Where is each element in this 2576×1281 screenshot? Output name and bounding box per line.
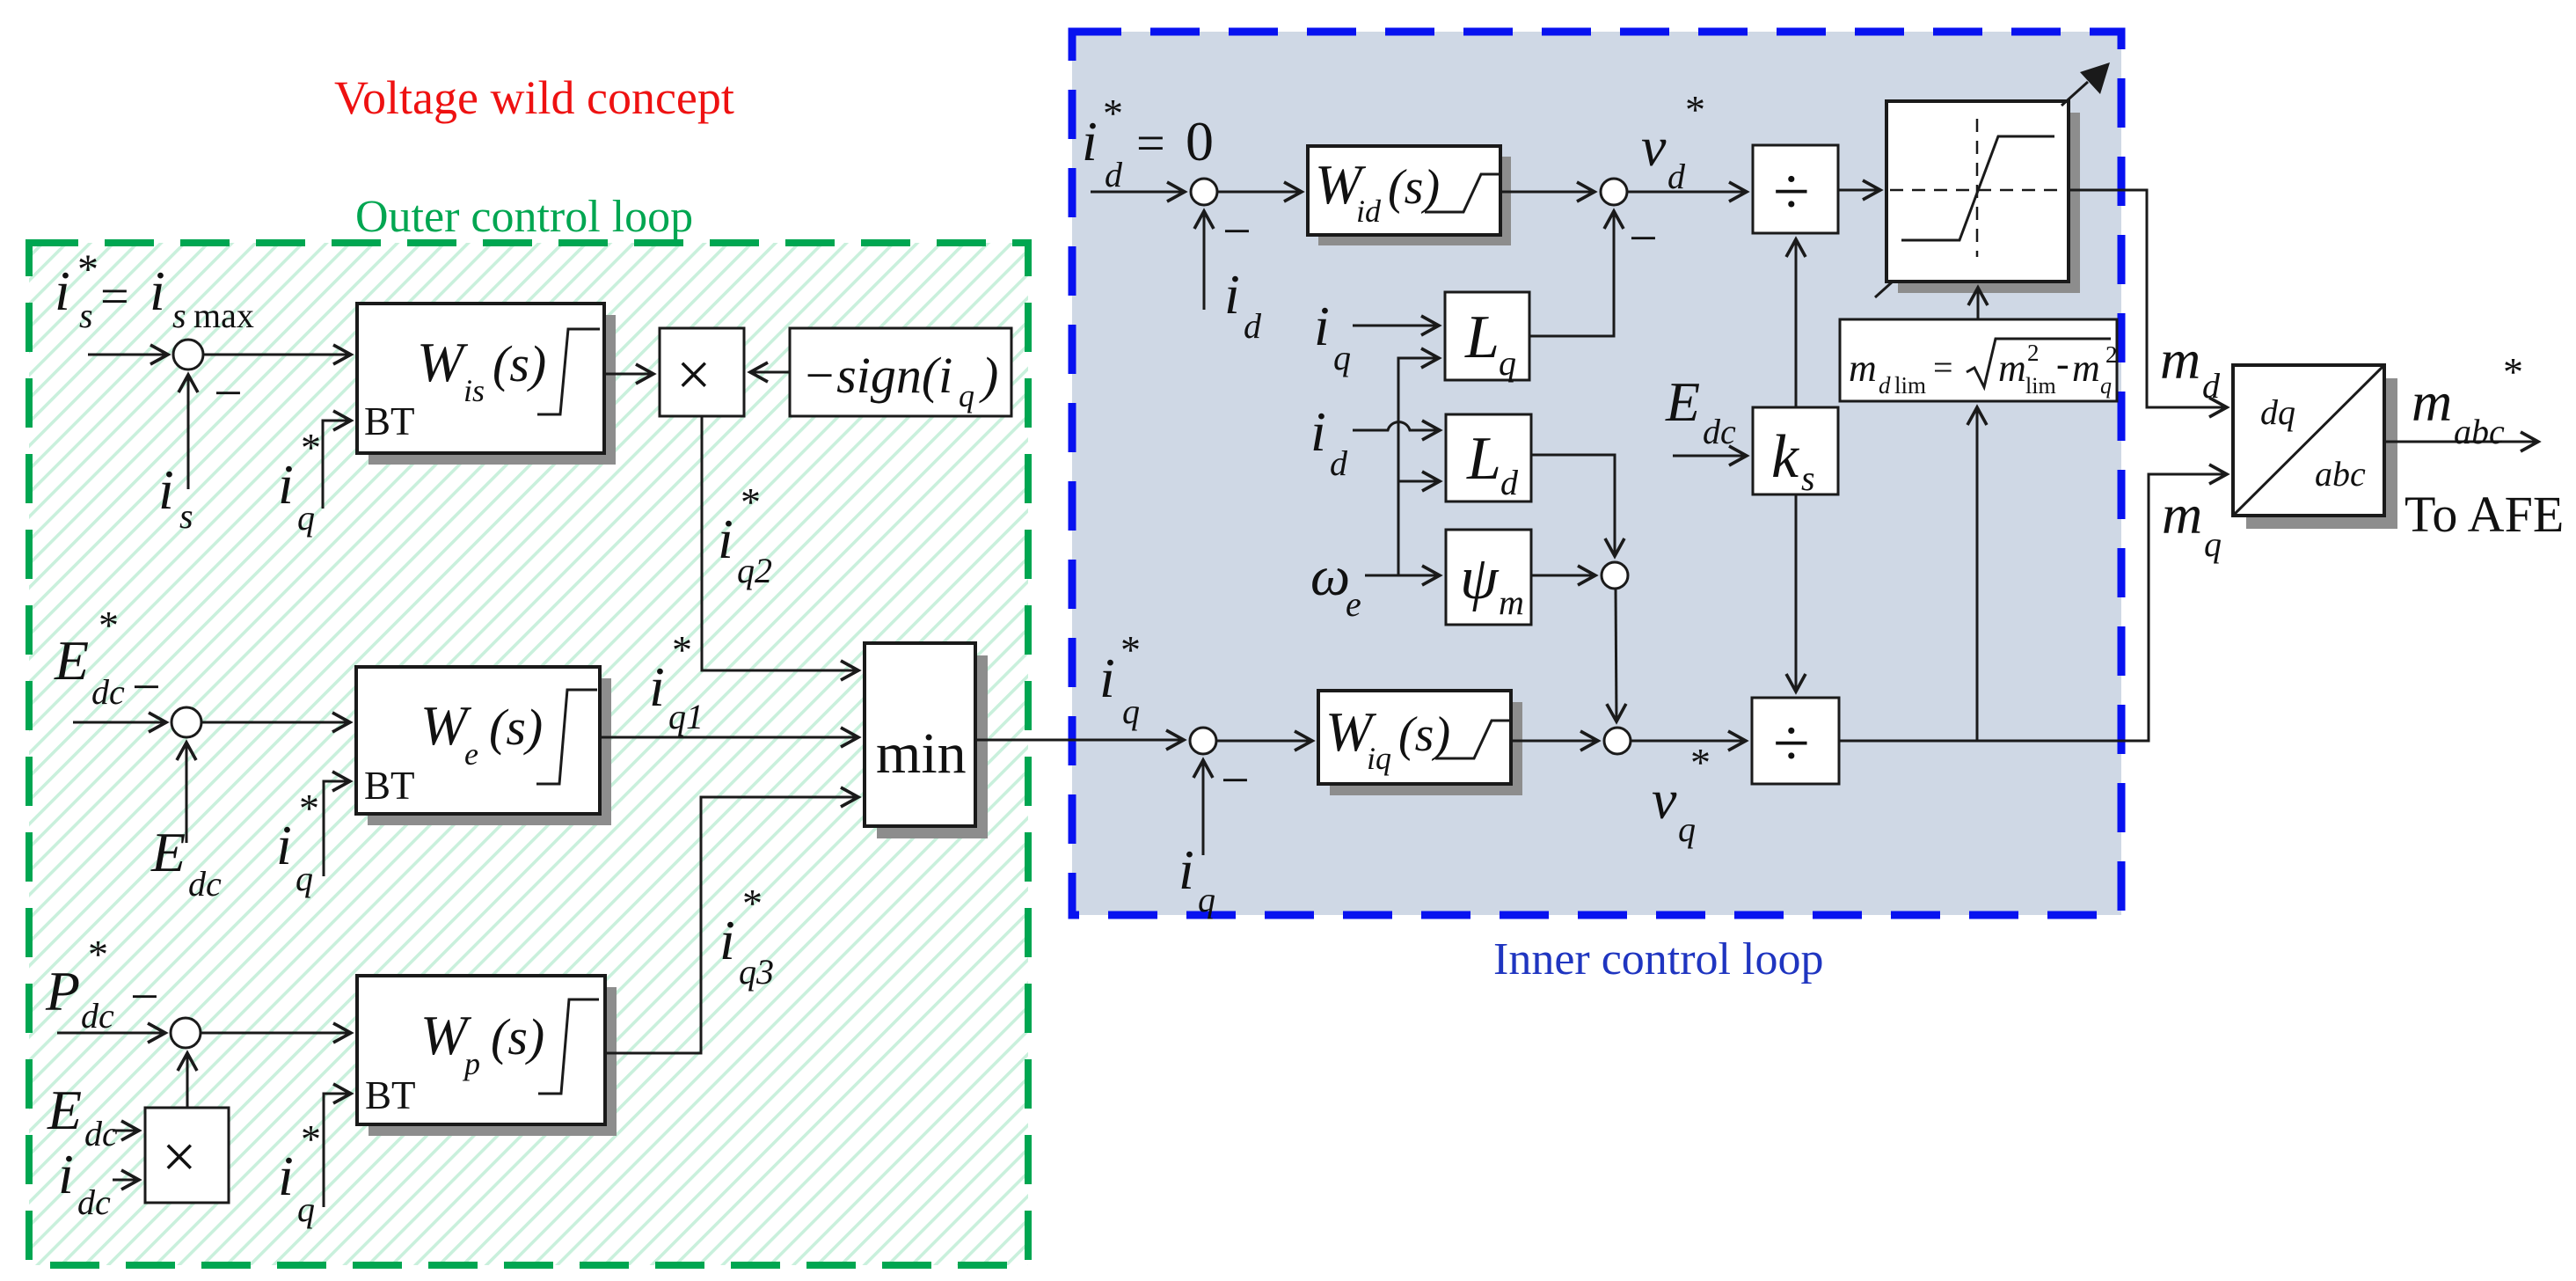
svg-text:q: q <box>2204 524 2222 564</box>
svg-text:d: d <box>1244 306 1262 346</box>
svg-text:i: i <box>718 508 733 570</box>
wire Wis to multiplier <box>604 373 653 376</box>
svg-text:Outer control loop: Outer control loop <box>355 192 693 242</box>
svg-text:v: v <box>1652 768 1677 831</box>
svg-text:q: q <box>297 1189 315 1229</box>
svg-text:*: * <box>88 932 108 977</box>
wire is* input <box>88 354 167 356</box>
svg-text:i: i <box>276 814 292 876</box>
wire mabc output <box>2384 441 2537 443</box>
wire S8 to D2 <box>1631 740 1745 743</box>
svg-text:L: L <box>1466 425 1501 493</box>
block mdlim formula <box>1840 319 2118 401</box>
node vq* label <box>1652 740 1711 849</box>
block ks <box>1753 407 1838 498</box>
svg-text:q: q <box>1122 692 1140 731</box>
svg-text:m: m <box>2072 347 2100 390</box>
node id label Ld <box>1310 400 1348 483</box>
wire iq feedback S7 <box>1202 761 1205 855</box>
wire md SAT to dq block <box>2069 190 2226 407</box>
wire adaptive tick SAT lower-left <box>1875 282 1893 297</box>
wire BT input Wp <box>324 1094 350 1207</box>
wire BT input Wis <box>323 421 350 509</box>
svg-text:d: d <box>1667 157 1686 196</box>
wire iq2 from X1 to min <box>702 416 857 670</box>
block We(s) <box>356 667 611 825</box>
svg-text:q3: q3 <box>739 952 774 992</box>
wire ks up to D1 <box>1795 240 1798 407</box>
node iq3* label <box>719 881 774 992</box>
svg-text:*: * <box>741 479 761 524</box>
svg-text:q: q <box>1499 343 1516 383</box>
node is label <box>158 458 193 536</box>
svg-text:iq: iq <box>1367 741 1391 776</box>
wire Wid to S6 <box>1500 191 1594 194</box>
block dq/abc transform <box>2233 365 2397 529</box>
wire D1 to saturation <box>1838 189 1879 192</box>
block Lq <box>1445 292 1529 383</box>
wire S7 to Wiq <box>1216 740 1311 743</box>
wire omega branch vertical <box>1398 358 1438 575</box>
svg-text:m: m <box>2162 483 2202 545</box>
svg-text:W: W <box>417 331 469 393</box>
svg-text:i: i <box>278 453 294 516</box>
wire S3 to Wp <box>200 1032 350 1035</box>
wire omega into Ld lower <box>1398 480 1439 483</box>
svg-text:i: i <box>719 909 735 971</box>
svg-text:*: * <box>742 881 763 926</box>
block multiplier X2 <box>145 1108 229 1203</box>
summing junction S2 <box>171 707 201 737</box>
wire omega into psi_m <box>1365 575 1439 577</box>
block Ld <box>1446 414 1531 502</box>
svg-text:−sign(i: −sign(i <box>802 347 952 404</box>
node vd* label <box>1641 87 1705 196</box>
svg-text:m: m <box>2412 370 2452 433</box>
wire idc into X2 <box>113 1179 138 1182</box>
svg-text:s: s <box>79 296 93 335</box>
node iq label Lq <box>1314 295 1351 377</box>
svg-text:i: i <box>1082 110 1098 172</box>
node Edc label ks <box>1665 370 1736 451</box>
node iq* label inner <box>1099 627 1141 731</box>
wire iq into Lq <box>1353 325 1438 327</box>
wire Edc* input <box>73 721 165 724</box>
svg-text:*: * <box>1685 87 1705 132</box>
svg-text:i: i <box>649 655 665 718</box>
wire mq up to mdlim <box>1976 408 1979 741</box>
svg-text:dc: dc <box>84 1114 118 1153</box>
svg-text:*: * <box>301 1116 321 1161</box>
svg-text:−: − <box>1221 751 1250 809</box>
svg-text:q1: q1 <box>668 697 704 736</box>
node Edc label <box>150 821 222 904</box>
svg-text:i: i <box>1224 263 1240 326</box>
svg-text:BT: BT <box>364 399 415 443</box>
svg-text:To AFE: To AFE <box>2405 486 2564 543</box>
svg-text:i: i <box>158 458 174 521</box>
svg-text:id: id <box>1356 194 1382 229</box>
svg-text:ψ: ψ <box>1460 545 1500 612</box>
svg-text:ω: ω <box>1310 545 1350 607</box>
wire Wiq to S8 <box>1511 740 1597 743</box>
svg-text:q: q <box>1198 880 1215 919</box>
svg-text:p: p <box>462 1046 480 1081</box>
svg-text:−: − <box>130 968 159 1025</box>
node Edc label X2 <box>47 1079 118 1153</box>
block min <box>865 643 988 838</box>
svg-text:d: d <box>2202 366 2221 406</box>
wire adaptive arrow SAT <box>2062 82 2088 106</box>
svg-text:−: − <box>1222 202 1252 260</box>
svg-text:i: i <box>278 1145 294 1207</box>
svg-text:=: = <box>1136 114 1165 172</box>
node iq1* label <box>649 627 704 736</box>
svg-text:2: 2 <box>2105 341 2118 368</box>
node Edc* label <box>54 603 125 712</box>
svg-text:dq: dq <box>2260 392 2295 432</box>
wire id feedback <box>1203 212 1206 310</box>
svg-text:q: q <box>1333 338 1351 377</box>
svg-text:=: = <box>100 267 129 325</box>
svg-text:dc: dc <box>91 672 125 712</box>
svg-text:dc: dc <box>81 996 114 1036</box>
wire Ld output to S9 <box>1531 455 1615 555</box>
summing junction S1 <box>173 340 203 370</box>
wire is feedback <box>187 376 190 489</box>
node mabc* label <box>2412 349 2523 451</box>
svg-text:*: * <box>301 425 321 470</box>
svg-text:*: * <box>1103 91 1123 135</box>
svg-text:i: i <box>1099 647 1115 709</box>
block Wid(s) <box>1308 146 1511 245</box>
wire Pdc* input <box>57 1032 164 1035</box>
wire ks down to D2 <box>1795 494 1798 691</box>
svg-text:=: = <box>1933 348 1953 387</box>
wire Lq output to S6 <box>1529 212 1614 336</box>
svg-text:0: 0 <box>1186 110 1214 172</box>
svg-text:is: is <box>463 373 485 408</box>
wire iq1 We to min <box>600 736 857 739</box>
block multiplier X1 <box>660 328 744 416</box>
svg-text:*: * <box>2503 349 2523 394</box>
wire S6 to div1 <box>1627 191 1746 194</box>
svg-text:×: × <box>676 341 711 409</box>
svg-text:q: q <box>297 498 315 538</box>
wire iq3 Wp to min <box>605 797 857 1053</box>
svg-text:q: q <box>959 378 974 414</box>
svg-text:q: q <box>1678 809 1696 849</box>
svg-text:max: max <box>193 296 254 335</box>
svg-text:v: v <box>1641 115 1667 178</box>
svg-text:−: − <box>214 364 243 421</box>
wire psi_m output to S9 <box>1531 575 1594 577</box>
node md label <box>2160 328 2221 406</box>
wire Edc feedback <box>186 743 188 843</box>
block Wiq(s) <box>1318 691 1522 795</box>
svg-text:dc: dc <box>188 864 222 904</box>
svg-text:-: - <box>2056 342 2069 385</box>
wire S5 to Wid <box>1217 191 1301 194</box>
svg-text:*: * <box>1690 740 1711 785</box>
wire -sign to X1 <box>751 371 790 374</box>
svg-text:m: m <box>1499 582 1524 622</box>
svg-text:*: * <box>299 786 319 831</box>
svg-text:Inner control loop: Inner control loop <box>1493 934 1823 985</box>
svg-text:*: * <box>77 246 99 293</box>
svg-text:i: i <box>55 260 70 322</box>
svg-text:d: d <box>1105 155 1123 194</box>
svg-text:P: P <box>45 960 80 1022</box>
svg-text:): ) <box>979 347 998 404</box>
svg-text:E: E <box>1665 370 1700 433</box>
block divider D1 <box>1753 145 1838 233</box>
wire id* input <box>1091 191 1184 194</box>
summing junction S7 <box>1190 728 1216 754</box>
block Wis(s) <box>357 304 616 465</box>
wire Edc into X2 <box>113 1130 138 1132</box>
svg-text:d: d <box>1330 443 1348 483</box>
svg-text:d: d <box>1879 372 1891 399</box>
svg-text:Voltage wild concept: Voltage wild concept <box>334 71 734 124</box>
svg-text:d: d <box>1500 463 1519 502</box>
svg-text:BT: BT <box>364 764 415 808</box>
svg-text:(s): (s) <box>1398 707 1450 762</box>
svg-text:s: s <box>1801 458 1815 498</box>
svg-text:m: m <box>2160 328 2200 391</box>
block psi_m <box>1446 530 1531 625</box>
svg-text:min: min <box>876 721 967 786</box>
node is*=ismax label <box>55 246 254 335</box>
block Wp(s) <box>357 976 617 1136</box>
svg-text:dc: dc <box>1703 412 1736 451</box>
svg-text:m: m <box>1849 347 1877 390</box>
svg-text:i: i <box>1310 400 1326 463</box>
wire mq D2 to dq block <box>1839 474 2226 741</box>
node iq* label row1 <box>278 425 321 538</box>
wire S1 to Wis <box>202 354 350 356</box>
svg-text:lim: lim <box>2025 373 2056 399</box>
svg-text:*: * <box>672 627 692 672</box>
svg-text:i: i <box>150 260 165 322</box>
node omega_e label <box>1310 545 1361 624</box>
wire S9 to S8 <box>1616 589 1616 721</box>
block -sign(iq) <box>790 328 1011 416</box>
node mq label <box>2162 483 2222 564</box>
svg-text:k: k <box>1771 423 1800 491</box>
svg-text:i: i <box>1179 838 1194 901</box>
svg-text:q: q <box>2100 373 2112 399</box>
svg-text:2: 2 <box>2027 340 2040 366</box>
node iq* label row3 <box>278 1116 321 1229</box>
node iq label S7 <box>1179 838 1215 919</box>
svg-text:−: − <box>132 658 161 715</box>
svg-text:(s): (s) <box>1388 160 1440 215</box>
svg-text:BT: BT <box>365 1073 416 1117</box>
node iq* label row2 <box>276 786 319 898</box>
svg-text:e: e <box>464 736 478 772</box>
wire mdlim to SAT <box>1977 289 1980 319</box>
wire Edc into ks <box>1673 455 1746 457</box>
svg-text:(s): (s) <box>489 699 543 756</box>
summing junction S9 <box>1602 562 1628 589</box>
svg-text:(s): (s) <box>493 335 546 392</box>
node id*=0 label <box>1082 91 1214 194</box>
svg-text:e: e <box>1346 584 1361 624</box>
inner control loop region (blue box) <box>1072 32 2121 915</box>
block divider D2 <box>1752 698 1839 784</box>
svg-text:s: s <box>172 296 186 335</box>
summing junction S6 <box>1601 179 1627 205</box>
wire S2 to We <box>201 721 349 724</box>
svg-text:E: E <box>150 821 186 883</box>
svg-text:abc: abc <box>2454 412 2505 451</box>
svg-text:q2: q2 <box>737 551 772 590</box>
svg-text:−: − <box>1629 209 1658 267</box>
svg-text:(s): (s) <box>491 1008 544 1065</box>
svg-text:*: * <box>99 603 119 648</box>
wire BT input We <box>324 781 349 876</box>
svg-text:lim: lim <box>1894 372 1926 399</box>
node iq2* label <box>718 479 772 590</box>
svg-text:abc: abc <box>2315 454 2366 494</box>
svg-text:E: E <box>47 1079 82 1141</box>
svg-text:i: i <box>58 1143 74 1205</box>
wire min output to S7 <box>975 739 1183 742</box>
svg-text:÷: ÷ <box>1773 155 1810 229</box>
outer control loop region (green hatched box) <box>29 243 1028 1265</box>
svg-text:dc: dc <box>77 1182 111 1222</box>
wire id into Ld with hop <box>1353 422 1439 430</box>
summing junction S5 <box>1191 179 1217 205</box>
node Pdc* label <box>45 932 114 1036</box>
svg-text:m: m <box>1998 347 2026 390</box>
svg-text:s: s <box>179 496 193 536</box>
svg-text:÷: ÷ <box>1773 706 1810 780</box>
svg-text:q: q <box>296 859 313 898</box>
node id label S5 <box>1224 263 1262 346</box>
svg-text:*: * <box>1120 627 1141 672</box>
node idc label <box>58 1143 111 1222</box>
wire multiplier X2 to S3 <box>186 1054 189 1108</box>
summing junction S3 <box>171 1018 201 1048</box>
svg-text:E: E <box>54 629 89 692</box>
summing junction S8 <box>1604 728 1631 754</box>
svg-text:×: × <box>162 1124 196 1191</box>
block saturation SAT <box>1886 101 2080 293</box>
svg-text:i: i <box>1314 295 1330 357</box>
svg-text:L: L <box>1464 304 1500 371</box>
